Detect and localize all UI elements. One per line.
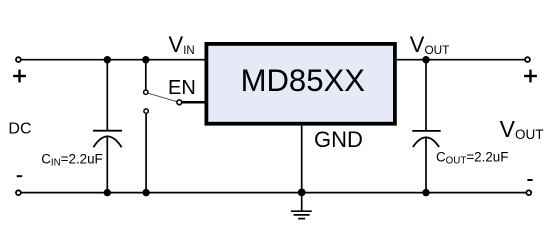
junction: COUT bottom node (422, 189, 429, 196)
svg-text:VOUT: VOUT (500, 116, 544, 142)
wire: CIN top lead (106, 60, 108, 131)
svg-text:MD85XX: MD85XX (241, 63, 366, 98)
ground symbol (291, 193, 312, 219)
label + (output positive) (524, 70, 537, 83)
capacitor COUT (412, 131, 440, 147)
junction: CIN bottom node (104, 189, 111, 196)
svg-text:VOUT: VOUT (410, 32, 450, 57)
label + (input positive) (13, 70, 26, 83)
wire: COUT bottom lead (425, 137, 427, 193)
terminal: output - (526, 190, 531, 195)
wire: top input rail (21, 59, 205, 61)
IC U1 MD85XX (206, 44, 395, 124)
junction: switch top node (142, 56, 149, 63)
wire: output top rail (397, 59, 525, 61)
svg-text:DC: DC (8, 121, 31, 138)
switch S1 top contact (144, 90, 148, 94)
wire: COUT top lead (425, 60, 427, 131)
junction: CIN top node (104, 56, 111, 63)
junction: COUT top node (422, 56, 429, 63)
wire: bottom ground rail (21, 192, 526, 194)
switch S1 EN-select blade (148, 93, 176, 101)
svg-text:EN: EN (168, 77, 196, 99)
wire: EN stub (182, 101, 206, 104)
capacitor CIN (93, 131, 122, 148)
label - (output negative) (527, 179, 532, 181)
wire: CIN bottom lead (106, 136, 108, 192)
label - (input negative) (17, 175, 23, 177)
terminal: output + (525, 57, 530, 62)
wire: IC GND lead (301, 126, 303, 193)
svg-text:CIN=2.2uF: CIN=2.2uF (41, 151, 103, 168)
svg-text:COUT=2.2uF: COUT=2.2uF (436, 149, 508, 166)
svg-text:VIN: VIN (169, 32, 195, 57)
junction: ground node (298, 189, 306, 197)
svg-text:GND: GND (314, 127, 363, 152)
terminal: DC + input (16, 57, 21, 62)
terminal: DC - input (16, 190, 21, 195)
junction: switch bottom node (142, 189, 149, 196)
wire: switch lower lead (145, 114, 147, 193)
wire: switch upper lead (145, 60, 147, 90)
switch S1 bottom contact (144, 109, 148, 113)
switch S1 EN pole contact (177, 100, 182, 105)
